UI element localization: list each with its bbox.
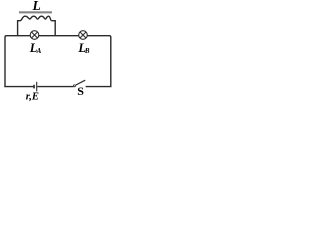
lamp LB [79, 31, 88, 40]
lamp LA [30, 31, 39, 40]
svg-text:B: B [84, 47, 90, 55]
inductor L branch: leads and coil humps [18, 16, 56, 36]
wire: outer loop left+top+right sides [5, 36, 111, 87]
wire: bottom right segment switch to corner [86, 86, 112, 88]
svg-text:A: A [36, 47, 42, 55]
svg-text:L: L [32, 0, 41, 13]
label LA [29, 41, 42, 55]
wire: bottom left segment to battery [4, 86, 33, 88]
svg-text:S: S [77, 84, 84, 98]
label LB [77, 41, 90, 55]
battery r,E plates [34, 82, 37, 92]
switch S lever [76, 80, 85, 85]
wire: bottom middle segment battery to switch [37, 86, 73, 88]
switch S pivot dot [74, 85, 76, 87]
iron core bar above coil [19, 11, 52, 13]
svg-text:r,E: r,E [26, 91, 39, 102]
